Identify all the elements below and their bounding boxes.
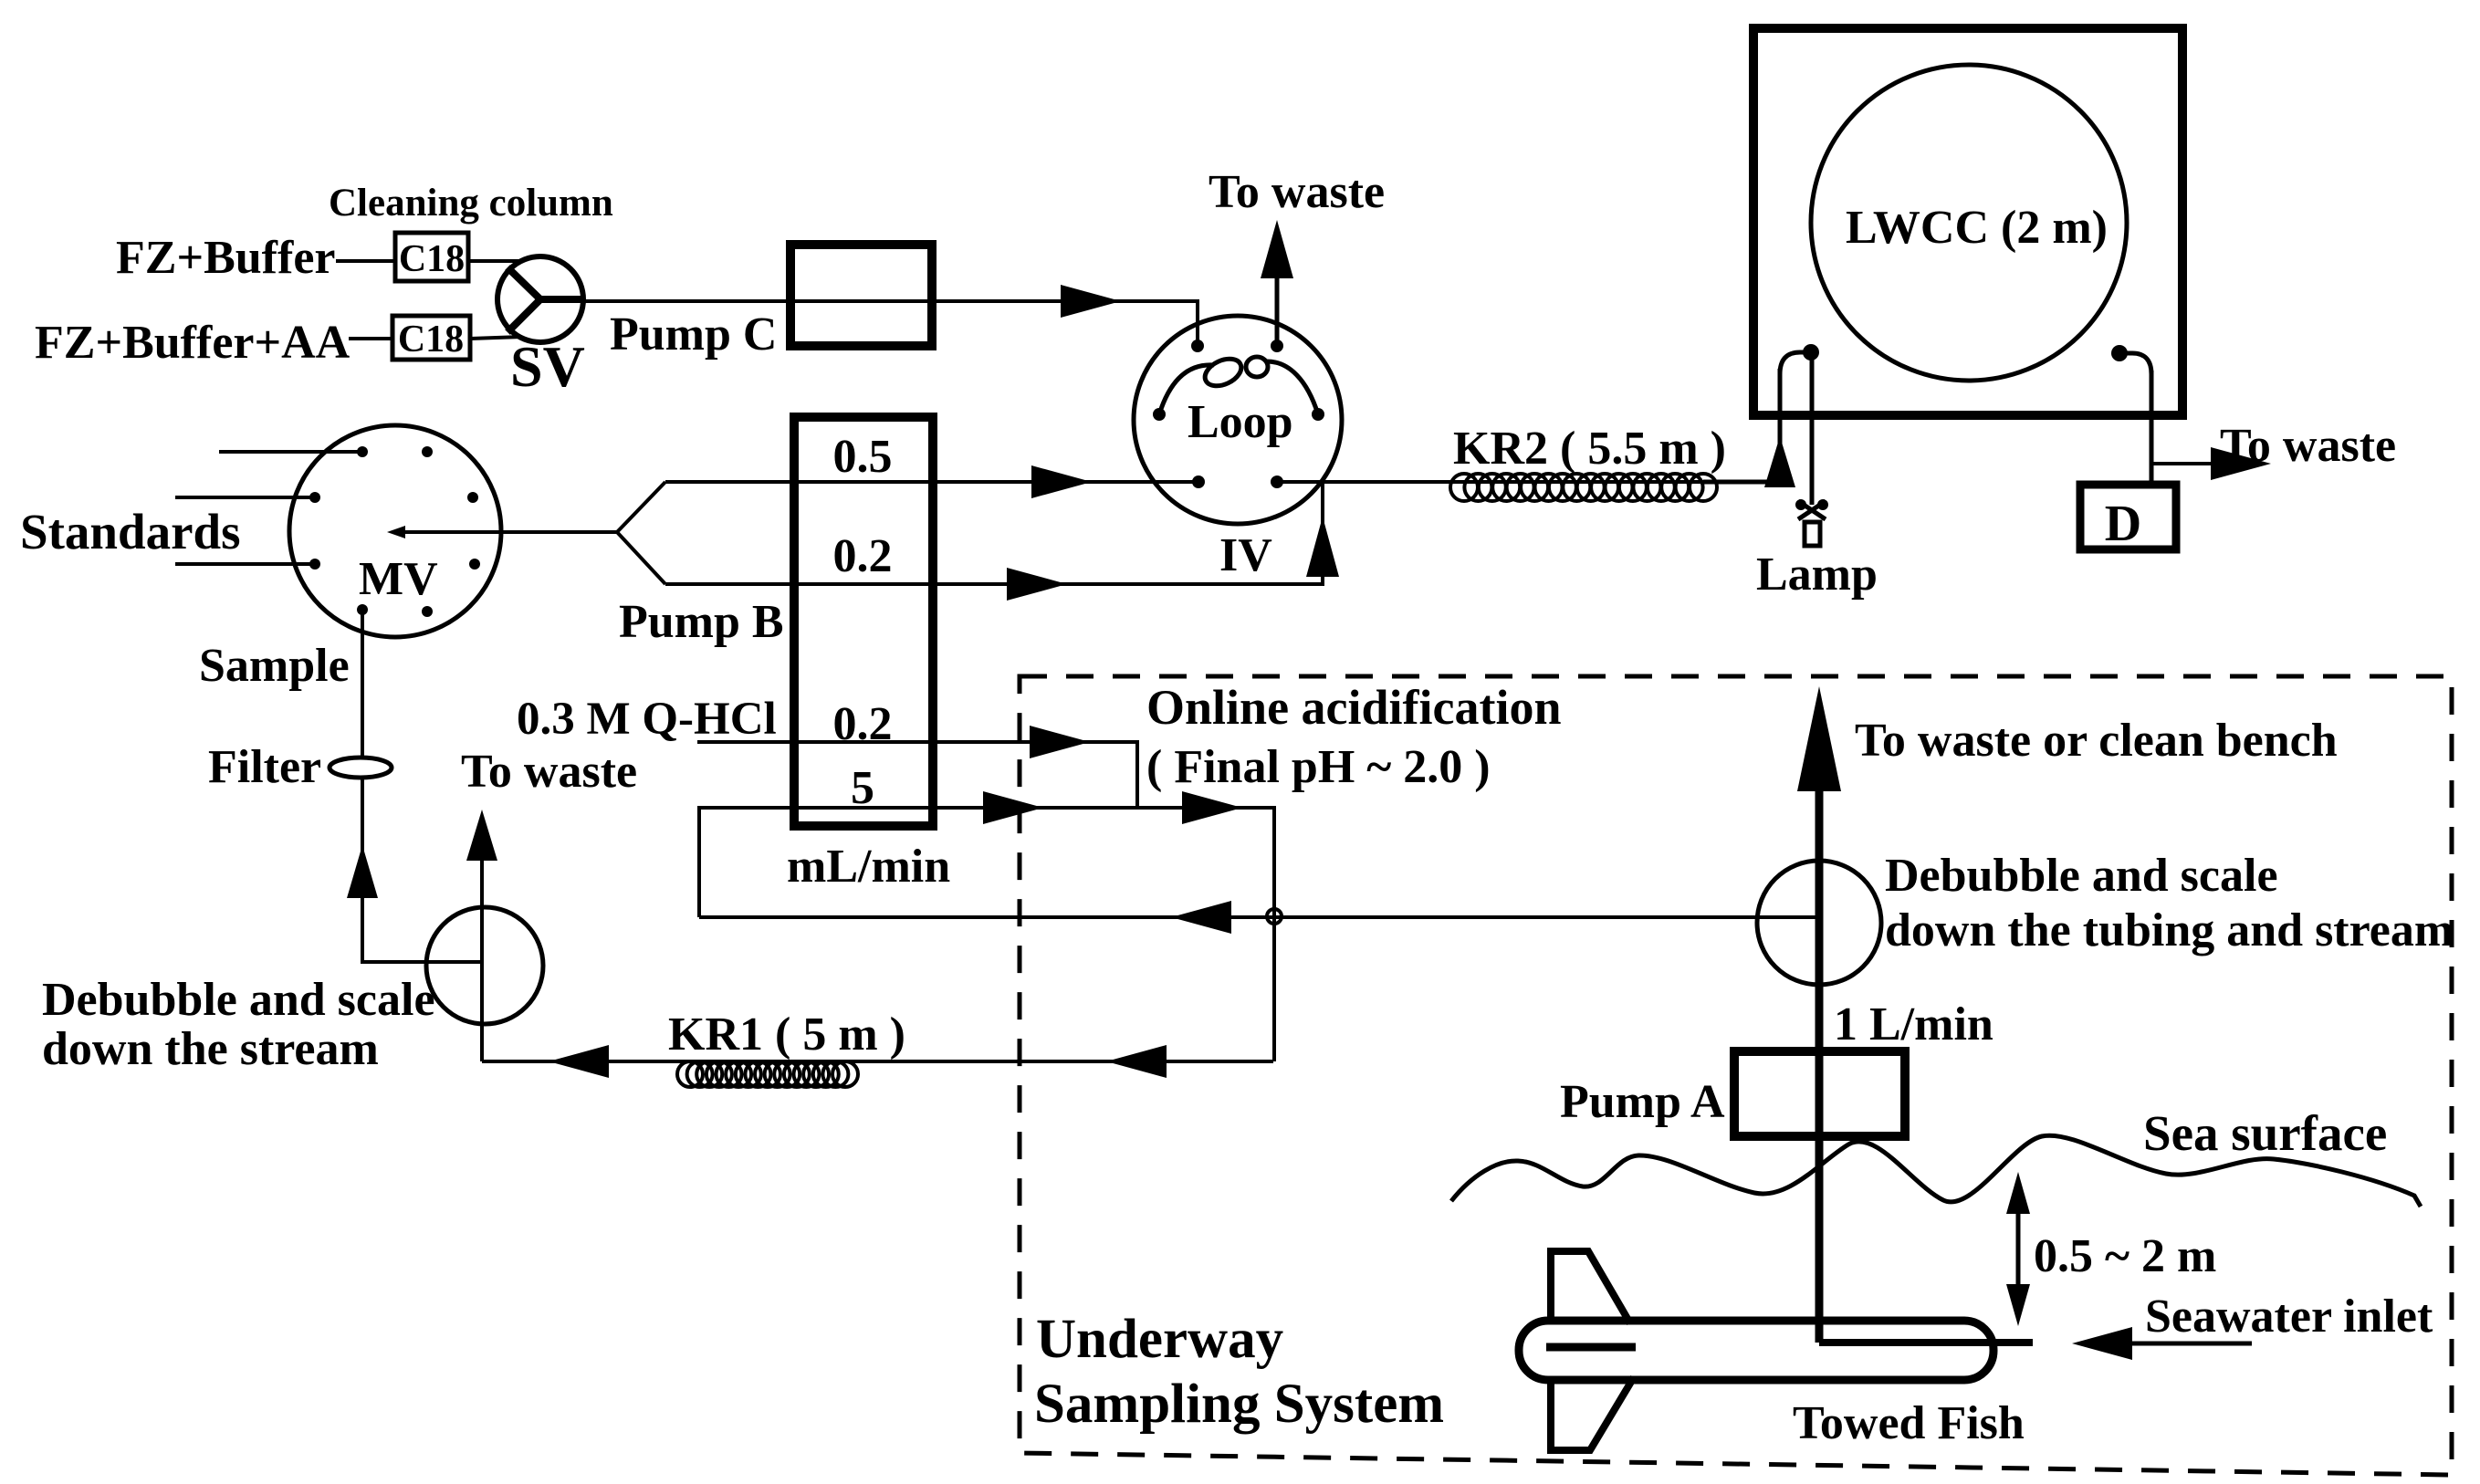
towed fish lower fin: [1551, 1377, 1634, 1450]
svg-text:C18: C18: [399, 238, 465, 280]
svg-text:Underway: Underway: [1036, 1309, 1283, 1370]
svg-text:FZ+Buffer+AA: FZ+Buffer+AA: [35, 317, 351, 369]
arrowhead to waste (right): [2211, 447, 2271, 480]
filter ellipse: [330, 758, 392, 778]
IV sample loop arc left: [1159, 365, 1214, 414]
IV port top-left: [1191, 340, 1204, 352]
svg-text:5: 5: [851, 762, 874, 814]
seawater channel 5 wire: [699, 808, 1274, 1061]
LWCC inlet node dot: [1803, 344, 1819, 361]
svg-text:C18: C18: [398, 319, 464, 361]
valve SV spoke right: [540, 296, 585, 303]
svg-text:To waste: To waste: [1209, 166, 1385, 218]
IV sample loop arc right: [1267, 361, 1318, 414]
wire IV top-right port to waste: [1275, 274, 1280, 346]
svg-text:mL/min: mL/min: [787, 841, 950, 893]
svg-text:Sea surface: Sea surface: [2143, 1105, 2387, 1161]
LWCC outlet node dot: [2111, 345, 2128, 361]
svg-text:KR1 ( 5 m ): KR1 ( 5 m ): [668, 1008, 905, 1061]
lamp star ray 2: [1798, 501, 1826, 519]
IV sample loop ellipse 2: [1246, 357, 1268, 377]
MV center tiny arrowhead: [387, 526, 405, 538]
IV port mid-right: [1312, 408, 1324, 421]
svg-text:Sample: Sample: [199, 640, 350, 692]
svg-text:Sampling System: Sampling System: [1034, 1374, 1444, 1435]
pump C box: [790, 245, 932, 346]
arrowhead to waste (left): [466, 810, 497, 861]
towed fish body: [1519, 1321, 1993, 1380]
svg-text:Cleaning column: Cleaning column: [329, 182, 613, 225]
valve SV spoke lower-left: [508, 299, 540, 332]
waste branch wire (right): [2151, 462, 2213, 465]
crossing bridge ring at acidified line over return line: [1267, 909, 1282, 924]
seawater return wire from debubbler: [699, 915, 1819, 919]
arrowhead into LWCC: [1764, 436, 1795, 487]
standards inlet wire 3: [175, 562, 315, 566]
svg-text:down the stream: down the stream: [42, 1023, 379, 1075]
IV port top-right: [1271, 340, 1283, 352]
manifold chevron upper: [617, 482, 665, 532]
wire KR2 to LWCC inlet: [1703, 369, 1780, 482]
left debubbler outlet wire to filter: [362, 610, 482, 962]
lamp fiber wire: [1810, 352, 1815, 498]
svg-text:Filter: Filter: [208, 741, 321, 793]
right debubbler circle: [1757, 861, 1881, 985]
svg-text:Pump A: Pump A: [1560, 1076, 1725, 1128]
svg-text:IV: IV: [1219, 529, 1272, 581]
left debubbler circle: [426, 907, 543, 1024]
arrowhead channel 0.2 joining: [1306, 517, 1339, 577]
selection valve SV circle: [497, 256, 583, 342]
KR1 wire: [482, 1060, 1273, 1063]
svg-text:Standards: Standards: [20, 504, 240, 559]
detector D box: [2080, 485, 2176, 549]
arrowhead to waste or clean bench: [1797, 686, 1841, 791]
svg-text:Pump C: Pump C: [610, 308, 777, 361]
wire C18#2 to valve SV: [470, 337, 522, 339]
svg-text:0.2: 0.2: [833, 698, 893, 750]
towed fish nose slot: [1546, 1343, 1636, 1352]
arrowhead to waste (top): [1261, 220, 1293, 278]
lamp star ray 1: [1798, 501, 1826, 519]
lamp body: [1805, 522, 1820, 546]
LWCC outer box: [1753, 28, 2182, 415]
arrowhead KR1 right: [1106, 1045, 1167, 1078]
valve SV spoke upper-left: [508, 267, 540, 299]
wire FZ+Buffer to C18 column 1: [336, 259, 395, 263]
arrowhead sample up: [347, 845, 378, 898]
Q-HCl channel wire: [697, 742, 1137, 808]
manifold chevron lower: [617, 532, 665, 584]
svg-text:Loop: Loop: [1188, 396, 1293, 448]
cleaning column C18 #1: [395, 233, 468, 281]
arrowhead channel 5 second: [1182, 791, 1242, 824]
wire C18#1 to valve SV: [468, 259, 522, 263]
standards inlet wire 2: [175, 496, 315, 499]
pump B box: [794, 417, 933, 826]
reaction coil KR2: [1450, 474, 1478, 501]
cleaning column C18 #2: [392, 316, 470, 360]
svg-text:Debubble and scale: Debubble and scale: [42, 974, 435, 1026]
svg-text:D: D: [2105, 496, 2141, 552]
arrowhead KR1 left: [549, 1045, 609, 1078]
arrowhead Q-HCl: [1030, 726, 1090, 758]
lamp star ray 3: [1810, 497, 1815, 505]
underway sampling system dashed box: [1020, 676, 2452, 1475]
svg-text:0.5: 0.5: [833, 431, 893, 483]
svg-text:SV: SV: [510, 334, 585, 399]
svg-text:Seawater inlet: Seawater inlet: [2145, 1291, 2433, 1343]
svg-text:FZ+Buffer: FZ+Buffer: [116, 232, 335, 284]
IV port bottom-right: [1271, 476, 1283, 488]
wire IV to KR2 coil: [1277, 480, 1780, 484]
multiposition valve MV circle: [289, 425, 501, 637]
depth arrowhead up: [2006, 1172, 2030, 1214]
arrowhead on pump C line: [1061, 285, 1121, 318]
MV unused port dot 3: [469, 559, 480, 570]
reaction coil KR1: [677, 1061, 703, 1087]
svg-text:MV: MV: [359, 553, 438, 605]
IV port bottom-left: [1192, 476, 1205, 488]
MV bottom port dot: [357, 604, 368, 615]
towed fish intake tube: [1819, 1339, 2033, 1346]
svg-text:LWCC (2 m): LWCC (2 m): [1846, 202, 2108, 254]
MV port 2 dot: [309, 492, 320, 503]
pump B channel 0.5 wire: [665, 480, 1198, 484]
MV port 1 dot: [357, 446, 368, 457]
LWCC coil circle: [1811, 65, 2127, 381]
svg-text:( Final pH ~ 2.0 ): ( Final pH ~ 2.0 ): [1146, 741, 1491, 793]
lamp star dot right: [1817, 499, 1828, 510]
seawater inlet wire: [2132, 1342, 2252, 1346]
MV center outlet wire to pump B manifold: [394, 530, 617, 534]
arrowhead channel 5 first: [983, 791, 1043, 824]
MV unused port dot 2: [467, 492, 478, 503]
svg-text:To waste or clean bench: To waste or clean bench: [1855, 715, 2338, 767]
svg-text:0.3 M Q-HCl: 0.3 M Q-HCl: [517, 694, 777, 745]
IV port mid-left: [1153, 408, 1166, 421]
svg-text:Pump B: Pump B: [619, 596, 784, 648]
arrowhead return wire (left): [1171, 901, 1231, 934]
depth double arrow line: [2016, 1186, 2021, 1314]
MV unused port dot 4: [422, 606, 433, 617]
LWCC inlet hook: [1780, 352, 1807, 374]
svg-text:down the tubing and stream: down the tubing and stream: [1885, 904, 2454, 956]
lamp star dot left: [1795, 499, 1806, 510]
IV sample loop ellipse 1: [1200, 353, 1245, 391]
standards inlet wire 1: [219, 450, 362, 454]
wire FZ+Buffer+AA to C18 column 2: [349, 337, 392, 340]
pump A box: [1734, 1051, 1905, 1136]
sea surface wavy line: [1451, 1135, 2421, 1207]
svg-text:Towed Fish: Towed Fish: [1793, 1397, 2025, 1449]
pump B channel 0.2 wire: [665, 482, 1323, 584]
MV unused port dot 1: [422, 446, 433, 457]
svg-text:Debubble and scale: Debubble and scale: [1885, 850, 2278, 902]
arrowhead seawater inlet: [2072, 1327, 2132, 1360]
svg-text:0.5 ~ 2 m: 0.5 ~ 2 m: [2034, 1230, 2216, 1282]
svg-text:Online acidification: Online acidification: [1146, 680, 1562, 735]
wire LWCC outlet to detector: [2150, 371, 2154, 485]
depth arrowhead down: [2006, 1284, 2030, 1326]
MV port 3 dot: [309, 559, 320, 570]
svg-text:Lamp: Lamp: [1756, 549, 1878, 601]
svg-text:To waste: To waste: [2220, 420, 2396, 472]
svg-text:To waste: To waste: [461, 746, 637, 798]
LWCC outlet hook: [2119, 353, 2151, 374]
svg-text:0.2: 0.2: [833, 530, 893, 582]
towed fish upper fin: [1551, 1251, 1630, 1323]
wire SV to injection valve IV via pump C: [583, 301, 1198, 346]
injection valve IV circle: [1134, 316, 1342, 524]
left debubbler vertical wire: [480, 859, 484, 1061]
arrowhead channel 0.5: [1031, 465, 1092, 498]
thick riser wire from fish: [1816, 791, 1824, 1343]
svg-text:1 L/min: 1 L/min: [1834, 998, 1993, 1050]
arrowhead channel 0.2 horizontal: [1007, 568, 1067, 601]
svg-text:KR2 ( 5.5 m ): KR2 ( 5.5 m ): [1453, 423, 1726, 475]
